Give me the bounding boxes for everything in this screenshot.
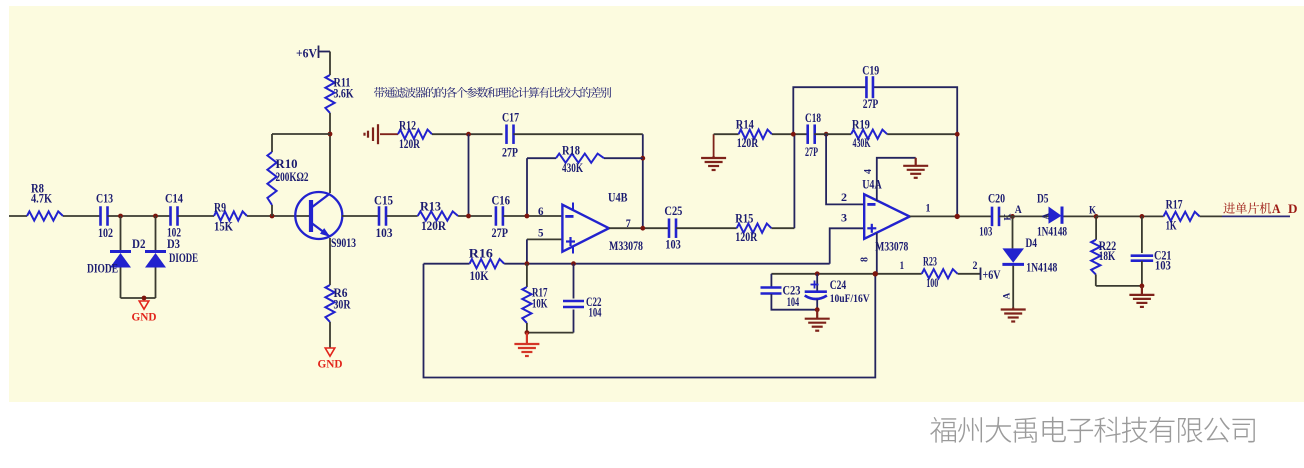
- svg-text:S9013: S9013: [331, 235, 356, 250]
- wire C22 bottom to R17 bottom: [527, 332, 574, 334]
- wire C19 top loop: [793, 87, 866, 134]
- wire feedback down to output: [642, 134, 644, 228]
- ground red earth R17: [514, 333, 539, 356]
- node C21 top: [1140, 214, 1145, 219]
- svg-text:R23: R23: [923, 254, 937, 269]
- svg-text:R15: R15: [735, 211, 753, 226]
- node gnd bracket: [142, 296, 147, 301]
- wire R16 row: [424, 263, 470, 265]
- svg-text:103: 103: [376, 225, 393, 240]
- diode D2: [110, 252, 131, 268]
- svg-text:M33078: M33078: [609, 238, 643, 253]
- wire pin3 leg: [830, 228, 865, 263]
- svg-text:R18: R18: [562, 143, 580, 158]
- resistor R11: [325, 75, 334, 113]
- node R17 top: [525, 261, 530, 266]
- wire R8 to C13: [63, 215, 100, 217]
- wire junction down to R13 row: [468, 134, 470, 216]
- wire R18 right: [604, 157, 643, 159]
- ground GND emitter: [325, 348, 335, 356]
- resistor R22 branch: [1095, 216, 1097, 239]
- wire output U4A: [910, 215, 992, 217]
- wire gnd bracket: [121, 297, 156, 299]
- wire emitter down: [329, 238, 331, 285]
- wire R18 left leg: [526, 158, 528, 216]
- svg-text:C24: C24: [830, 277, 847, 292]
- ground earth C24: [805, 310, 830, 331]
- svg-text:R12: R12: [399, 118, 416, 133]
- capacitor C24 polarized: [816, 274, 818, 292]
- node base junction: [270, 214, 275, 219]
- svg-text:15K: 15K: [214, 219, 234, 234]
- svg-text:430K: 430K: [562, 160, 584, 175]
- svg-text:C13: C13: [96, 191, 113, 206]
- wire C18 to R19: [814, 133, 851, 135]
- ground earth D4: [1001, 308, 1026, 322]
- node feedback right: [955, 132, 960, 137]
- diode D3: [145, 252, 166, 268]
- wire pin2 leg: [826, 134, 864, 204]
- wire D2 branch: [120, 216, 122, 250]
- svg-text:1K: 1K: [1166, 218, 1178, 233]
- wire emitter to C15: [342, 215, 378, 217]
- svg-text:3.6K: 3.6K: [334, 86, 355, 101]
- resistor R23: [922, 269, 958, 278]
- node C16 junction: [466, 214, 471, 219]
- svg-text:4.7K: 4.7K: [31, 191, 53, 206]
- svg-text:10uF/16V: 10uF/16V: [830, 293, 871, 305]
- svg-text:10K: 10K: [532, 296, 548, 311]
- resistor R19: [851, 130, 887, 139]
- svg-text:103: 103: [1155, 258, 1171, 273]
- company watermark: [930, 417, 956, 443]
- svg-text:R17: R17: [1166, 197, 1183, 212]
- svg-text:R14: R14: [736, 117, 754, 132]
- svg-text:C25: C25: [664, 203, 682, 218]
- svg-text:C15: C15: [374, 193, 393, 208]
- svg-text:120R: 120R: [399, 136, 420, 151]
- diode D5: [1049, 207, 1062, 224]
- svg-text:104: 104: [589, 305, 602, 320]
- svg-text:U4B: U4B: [608, 190, 628, 205]
- svg-text:27P: 27P: [492, 225, 509, 240]
- capacitor C20: [991, 207, 994, 227]
- capacitor C22: [573, 264, 575, 299]
- ground earth C21: [1129, 286, 1154, 307]
- wire C17 to feedback: [514, 133, 643, 135]
- svg-text:103: 103: [979, 224, 992, 239]
- wire R11 to collector: [329, 113, 331, 193]
- svg-text:C20: C20: [988, 191, 1005, 206]
- svg-text:R16: R16: [469, 246, 494, 261]
- wire R16 to pin3 U4A: [504, 263, 830, 265]
- node C18 right: [824, 132, 829, 137]
- wire K to C21: [1096, 215, 1163, 217]
- wire C16 to pin6: [503, 215, 562, 217]
- resistor R8: [27, 211, 63, 220]
- wire D3 to gnd bracket: [155, 268, 157, 299]
- capacitor C14: [169, 206, 172, 226]
- wire D3 branch: [155, 216, 157, 250]
- svg-text:+6V: +6V: [983, 267, 1001, 282]
- svg-text:27P: 27P: [502, 145, 518, 160]
- pin 8 wire down: [876, 233, 878, 274]
- svg-text:6: 6: [538, 204, 544, 218]
- resistor R17 output: [1164, 212, 1200, 221]
- svg-text:3: 3: [841, 211, 847, 225]
- svg-text:R13: R13: [420, 199, 441, 214]
- svg-text:A: A: [1002, 292, 1012, 299]
- svg-text:104: 104: [787, 294, 800, 309]
- svg-text:1N4148: 1N4148: [1026, 260, 1057, 275]
- resistor R13: [418, 211, 458, 220]
- svg-text:R9: R9: [214, 200, 226, 215]
- capacitor C23: [770, 274, 772, 287]
- resistor R9: [214, 211, 247, 220]
- wire gnd to R14: [714, 133, 739, 135]
- resistor R10: [267, 152, 276, 205]
- resistor R16: [470, 259, 505, 268]
- svg-text:D: D: [1288, 202, 1298, 216]
- net label to MCU chinese: [1223, 202, 1235, 213]
- svg-text:GND: GND: [132, 310, 157, 324]
- svg-text:120R: 120R: [421, 218, 447, 233]
- wire R22 bottom to C21: [1096, 285, 1142, 287]
- resistor R6: [325, 285, 334, 322]
- wire output U4B: [609, 227, 669, 229]
- node pin6 junction: [525, 214, 530, 219]
- wire C24 bottom: [816, 300, 818, 310]
- wire R19 right: [887, 133, 957, 135]
- svg-text:1: 1: [926, 201, 931, 215]
- svg-text:+6V: +6V: [296, 46, 318, 61]
- ground earth left of R12: [365, 124, 379, 144]
- capacitor C21: [1141, 216, 1143, 253]
- svg-text:C17: C17: [502, 110, 519, 125]
- svg-text:430K: 430K: [853, 135, 872, 150]
- svg-text:120R: 120R: [735, 229, 757, 244]
- svg-text:10K: 10K: [470, 268, 490, 283]
- node C24 top: [815, 271, 820, 276]
- wire power rail: [771, 273, 921, 275]
- wire C14 to R9: [178, 215, 215, 217]
- svg-text:1N4148: 1N4148: [1037, 224, 1067, 239]
- node R18 feedback junction: [640, 156, 645, 161]
- wire D5 to K: [1064, 215, 1097, 217]
- svg-text:D2: D2: [132, 236, 146, 251]
- svg-text:200KΩ2: 200KΩ2: [276, 169, 309, 184]
- transistor Q1 S9013: [295, 192, 342, 239]
- svg-text:C14: C14: [165, 191, 183, 206]
- svg-text:C18: C18: [805, 110, 821, 125]
- resistor R17: [526, 264, 528, 287]
- svg-text:DIODE: DIODE: [169, 250, 198, 265]
- svg-text:2: 2: [973, 258, 978, 272]
- node D3 junction: [153, 214, 158, 219]
- wire C13 to C14: [108, 215, 171, 217]
- svg-text:M33078: M33078: [875, 239, 908, 254]
- resistor R18: [556, 154, 604, 163]
- diode D4 branch: [1012, 216, 1014, 248]
- svg-text:U4A: U4A: [862, 177, 882, 192]
- svg-text:D4: D4: [1026, 235, 1038, 250]
- resistor R12: [398, 130, 432, 139]
- svg-text:102: 102: [98, 225, 113, 240]
- svg-text:103: 103: [665, 237, 681, 252]
- wire R9 to base: [247, 215, 309, 217]
- ground GND diodes: [139, 301, 149, 309]
- capacitor C13: [99, 206, 102, 226]
- svg-text:A: A: [1015, 202, 1022, 216]
- node output junction U4B: [640, 226, 645, 231]
- node pin8 rail: [873, 271, 878, 276]
- svg-text:18K: 18K: [1099, 248, 1116, 263]
- capacitor C18: [806, 124, 809, 144]
- node C22 top: [571, 261, 576, 266]
- node C18 left: [791, 132, 796, 137]
- wire C15 to R13: [387, 215, 418, 217]
- wire to MCU: [1200, 215, 1222, 217]
- capacitor C16: [495, 206, 498, 226]
- wire R12 to C17: [432, 133, 503, 135]
- wire A to D5: [999, 215, 1049, 217]
- wire R23 to +6V: [958, 273, 980, 275]
- ground earth pin4: [903, 158, 928, 178]
- svg-text:1: 1: [900, 258, 905, 272]
- wire R13 to C16: [458, 215, 492, 217]
- svg-text:2: 2: [841, 190, 847, 204]
- wire R10 to base node: [271, 205, 273, 216]
- svg-text:D5: D5: [1037, 191, 1049, 206]
- svg-text:5: 5: [538, 226, 544, 240]
- wire R15 up to C18 node: [771, 227, 794, 229]
- node K junction: [1094, 214, 1099, 219]
- wire R14 to C18: [772, 133, 808, 135]
- svg-text:GND: GND: [318, 357, 343, 371]
- node A junction: [1010, 214, 1015, 219]
- svg-text:C16: C16: [492, 193, 511, 208]
- wire input left: [9, 215, 27, 217]
- node R12-C17 junction: [466, 132, 471, 137]
- node D2 junction: [118, 214, 123, 219]
- svg-text:30R: 30R: [334, 297, 351, 312]
- wire feedback bottom loop: [424, 264, 876, 378]
- power +6V rail: [980, 268, 982, 281]
- svg-text:A: A: [1272, 202, 1281, 216]
- svg-text:120R: 120R: [737, 135, 759, 150]
- capacitor C25: [668, 218, 671, 238]
- ground earth R14: [713, 134, 715, 156]
- op-amp U4B: [562, 203, 609, 254]
- pin 4 wire to ground: [877, 158, 916, 201]
- wire +6V down: [329, 52, 331, 76]
- wire R6 to GND: [329, 322, 331, 348]
- svg-text:4: 4: [863, 169, 874, 174]
- resistor R14: [739, 130, 772, 139]
- annotation text: [374, 87, 385, 98]
- svg-text:D3: D3: [167, 236, 180, 251]
- capacitor C15: [378, 206, 381, 226]
- node C21 bottom: [1140, 284, 1145, 289]
- wire pin5: [527, 238, 563, 240]
- node C23-C24 bottom: [815, 307, 820, 312]
- node R17-C22 bottom: [525, 330, 530, 335]
- svg-text:100: 100: [926, 275, 938, 290]
- resistor R15: [737, 224, 772, 233]
- node output junction U4A: [955, 214, 960, 219]
- wire D4 to ground: [1012, 266, 1014, 308]
- op-amp U4A: [864, 194, 910, 239]
- svg-text:8: 8: [859, 257, 870, 262]
- svg-text:27P: 27P: [863, 96, 879, 111]
- capacitor C19: [865, 76, 868, 98]
- svg-text:27P: 27P: [805, 144, 818, 159]
- svg-text:DIODE: DIODE: [87, 261, 118, 276]
- wire bias to R10: [272, 133, 330, 135]
- node bias junction: [328, 132, 333, 137]
- svg-text:R19: R19: [852, 117, 870, 132]
- wire C25 to R15: [676, 227, 737, 229]
- wire D2 to gnd bracket: [120, 268, 122, 299]
- capacitor C17: [505, 124, 508, 144]
- svg-text:C19: C19: [862, 63, 879, 78]
